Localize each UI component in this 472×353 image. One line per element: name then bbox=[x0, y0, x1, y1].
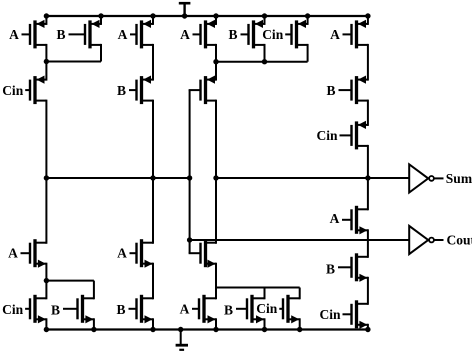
svg-text:A: A bbox=[9, 27, 19, 42]
svg-text:Cin: Cin bbox=[2, 302, 24, 317]
svg-text:A: A bbox=[180, 27, 190, 42]
wire node N4 down to B7 bbox=[264, 288, 266, 300]
wire VDD to Cin1 bbox=[307, 16, 309, 25]
wire N1 source down to node N4 bbox=[215, 263, 217, 300]
wire node N4 down to Cin5 bbox=[299, 288, 301, 300]
svg-text:Cin: Cin bbox=[256, 301, 278, 316]
node Cout-bar wire bbox=[46, 177, 189, 179]
svg-text:Cout: Cout bbox=[447, 233, 472, 248]
svg-text:Cin: Cin bbox=[262, 27, 284, 42]
wire Cin4 source to ground rail bbox=[45, 318, 47, 329]
ground rail junction at A8 bbox=[213, 327, 218, 332]
wire A4 drain to B4 source bbox=[367, 44, 369, 81]
wire Cin3 drain down to Sum-bar node bbox=[367, 145, 369, 178]
VDD rail junction at A4 bbox=[365, 13, 370, 18]
VDD rail junction at A2 bbox=[150, 13, 155, 18]
wire B1 drain down to node N1 bbox=[100, 44, 102, 62]
ground rail junction at B7 bbox=[262, 327, 267, 332]
wire A8 source to ground rail bbox=[215, 318, 217, 329]
node N2 junction at B2 bbox=[262, 59, 267, 64]
svg-text:B: B bbox=[326, 83, 335, 98]
wire node N1 down to Cin2 bbox=[45, 62, 47, 81]
PMOS transistor P1 (gate Cout-bar) bbox=[189, 76, 216, 105]
NMOS transistor N1 (gate Cout-bar) bbox=[189, 239, 216, 268]
wire VDD to A1 bbox=[45, 16, 47, 25]
wire VDD to A3 bbox=[215, 16, 217, 25]
node N3 wire bbox=[46, 280, 94, 282]
svg-text:A: A bbox=[330, 27, 340, 42]
svg-text:B: B bbox=[116, 302, 125, 317]
NMOS transistor B7 (gate B) bbox=[224, 295, 265, 324]
wire node N2 down to P1 bbox=[215, 62, 217, 81]
wire Cin1 drain down to node N2 bbox=[307, 44, 309, 62]
svg-text:A: A bbox=[118, 27, 128, 42]
svg-text:B: B bbox=[224, 302, 233, 317]
node Cout-bar junction at gate vertical bbox=[187, 175, 192, 180]
svg-text:B: B bbox=[56, 27, 65, 42]
NMOS transistor Cin6 (gate Cin) bbox=[319, 300, 367, 329]
ground symbol bbox=[176, 330, 188, 350]
inverter U2 (Cout) bbox=[409, 226, 443, 254]
PMOS transistor Cin1 (gate Cin) bbox=[262, 20, 307, 49]
VDD rail junction at A1 bbox=[44, 13, 49, 18]
PMOS transistor Cin2 (gate Cin) bbox=[2, 76, 46, 105]
svg-text:B: B bbox=[326, 261, 335, 276]
NMOS transistor A7 (gate A) bbox=[117, 239, 153, 268]
svg-text:Cin: Cin bbox=[2, 83, 24, 98]
node N3 junction bbox=[44, 278, 49, 283]
NMOS transistor A8 (gate A) bbox=[180, 295, 216, 324]
svg-text:A: A bbox=[117, 246, 127, 261]
NMOS transistor B6 (gate B) bbox=[116, 295, 153, 324]
PMOS transistor A3 (gate A) bbox=[180, 20, 216, 49]
wire Cin5 source to ground rail bbox=[299, 318, 301, 329]
VDD rail junction at B1 bbox=[98, 13, 103, 18]
svg-text:B: B bbox=[228, 27, 237, 42]
wire Cout-bar line to Cout inverter bbox=[190, 239, 410, 241]
ground rail junction at B5 bbox=[91, 327, 96, 332]
NMOS transistor B5 (gate B) bbox=[51, 295, 94, 324]
wire P1 drain down through Sum-bar to N1mid bbox=[215, 100, 217, 244]
wire Sum-bar down to A6 bbox=[367, 178, 369, 210]
PMOS transistor B3 (gate B) bbox=[117, 76, 153, 105]
NMOS transistor A5 (gate A) bbox=[8, 239, 46, 268]
ground rail junction at gnd stub bbox=[178, 327, 183, 332]
PMOS transistor Cin3 (gate Cin) bbox=[316, 121, 367, 150]
wire A2 drain to B3 source bbox=[152, 44, 154, 81]
wire A7 source to B6 drain bbox=[152, 263, 154, 300]
ground rail junction at B6 bbox=[150, 327, 155, 332]
wire B3 drain down to carry NMOS A7 bbox=[152, 100, 154, 244]
wire VDD to B2 bbox=[264, 16, 266, 25]
PMOS transistor A2 (gate A) bbox=[118, 20, 153, 49]
PMOS transistor B2 (gate B) bbox=[228, 20, 264, 49]
wire A3 drain down to node N2 bbox=[215, 44, 217, 62]
svg-text:B: B bbox=[117, 83, 126, 98]
ground rail wire bbox=[45, 328, 368, 330]
wire VDD to B1 bbox=[100, 16, 102, 25]
node Cout-bar junction at y240 bbox=[187, 237, 192, 242]
VDD rail junction at B2 bbox=[262, 13, 267, 18]
wire B7 source to ground rail bbox=[264, 318, 266, 329]
node N2 (A||B||Cin) wire bbox=[216, 61, 308, 63]
node Cout-bar junction at x46 bbox=[44, 175, 49, 180]
wire Cout-bar gate vertical bbox=[189, 90, 191, 253]
ground rail junction at Cin5 bbox=[297, 327, 302, 332]
node Sum-bar junction at x216 bbox=[213, 175, 218, 180]
node Sum-bar junction at x368 bbox=[365, 175, 370, 180]
VDD power symbol bbox=[179, 3, 191, 16]
svg-text:B: B bbox=[51, 303, 60, 318]
PMOS transistor B4 (gate B) bbox=[326, 76, 367, 105]
VDD rail junction at Cin1 bbox=[305, 13, 310, 18]
ground rail junction at Cin4 bbox=[44, 327, 49, 332]
wire A1 drain down to node N1 bbox=[45, 44, 47, 62]
NMOS transistor Cin4 (gate Cin) bbox=[2, 295, 46, 324]
svg-text:A: A bbox=[330, 211, 340, 226]
svg-text:Cin: Cin bbox=[316, 128, 338, 143]
PMOS transistor A1 (gate A) bbox=[9, 20, 46, 49]
wire A6 source to B8 drain bbox=[367, 229, 369, 257]
PMOS transistor A4 (gate A) bbox=[330, 20, 368, 49]
PMOS transistor B1 (gate B) bbox=[56, 20, 101, 49]
VDD rail junction at A3 bbox=[213, 13, 218, 18]
VDD rail junction at power bbox=[182, 13, 187, 18]
svg-text:A: A bbox=[180, 302, 190, 317]
svg-text:Sum: Sum bbox=[446, 171, 472, 186]
wire B2 drain down to node N2 bbox=[264, 44, 266, 62]
wire VDD to A4 bbox=[367, 16, 369, 25]
wire Cin6 source to ground rail bbox=[367, 324, 369, 330]
NMOS transistor A6 (gate A) bbox=[330, 206, 368, 235]
node N1 (A||B) wire bbox=[46, 61, 101, 63]
wire VDD to A2 bbox=[152, 16, 154, 25]
svg-text:Cin: Cin bbox=[319, 307, 341, 322]
wire B4 drain to Cin3 source bbox=[367, 100, 369, 126]
ground rail junction at Cin6 bbox=[365, 327, 370, 332]
node N2 junction bbox=[213, 59, 218, 64]
node N1 junction bbox=[44, 59, 49, 64]
NMOS transistor B8 (gate B) bbox=[326, 253, 368, 282]
wire B6 source to ground rail bbox=[152, 318, 154, 329]
node N4 wire bbox=[216, 287, 300, 289]
wire node N3 down to Cin4 bbox=[45, 281, 47, 300]
NMOS transistor Cin5 (gate Cin) bbox=[256, 295, 299, 324]
svg-text:A: A bbox=[8, 246, 18, 261]
wire Cin2 drain down to carry NMOS A5 bbox=[45, 100, 47, 244]
node Sum-bar wire bbox=[216, 177, 409, 179]
wire node N3 down to B5 bbox=[93, 281, 95, 300]
wire A5 source down to node N3 bbox=[45, 263, 47, 281]
wire B5 source to ground rail bbox=[93, 318, 95, 329]
wire B8 source to Cin6 drain bbox=[367, 277, 369, 305]
inverter U1 (Sum) bbox=[409, 164, 443, 192]
node Cout-bar junction at x153 bbox=[150, 175, 155, 180]
VDD power rail wire bbox=[45, 15, 369, 17]
